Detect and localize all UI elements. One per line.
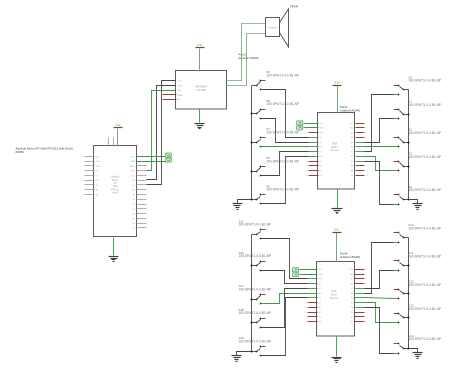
svg-text:GAIN: GAIN [178,94,184,97]
svg-text:SCL: SCL [319,269,323,271]
switch S1 [394,100,441,120]
svg-text:DIN: DIN [178,90,182,92]
svg-text:GND: GND [349,128,354,130]
switch S10 [394,223,441,243]
svg-text:100-SP4/T1-0-0-B1-NP: 100-SP4/T1-0-0-B1-NP [239,254,272,258]
wire bus to ground (bottom-right) [409,349,418,353]
svg-text:29: 29 [305,161,307,163]
ground (amp) [195,124,205,129]
wire Part3 GND [337,190,339,209]
amplifier U1 MAX98357 I2S amp [176,71,227,110]
svg-text:100-SP4/T1-0-0-B1-NP: 100-SP4/T1-0-0-B1-NP [239,339,272,343]
pin stub [308,312,318,314]
wire Part4 SCL [300,269,318,271]
ground (bottom-left column) [232,356,242,362]
svg-text:1: 1 [366,123,367,125]
wire Metro SCL [137,156,166,158]
svg-text:B4: B4 [319,302,321,304]
wire S5 to Part3 [261,157,309,204]
wire Part3 SDA [304,127,319,129]
svg-text:B2: B2 [320,147,322,149]
svg-text:B1: B1 [320,142,322,144]
svg-text:A6: A6 [351,316,353,319]
svg-text:A1: A1 [351,292,353,295]
svg-text:12: 12 [366,321,368,323]
wire Part4 SDA [300,274,318,276]
ground (Metro) [109,257,119,262]
ground (Part4) [332,358,342,363]
switch S5 [251,184,299,204]
ground (bottom-right column) [413,353,423,359]
svg-text:100-SP4/T1-0-0-B1-NP: 100-SP4/T1-0-0-B1-NP [408,155,441,159]
svg-text:10: 10 [366,166,368,168]
svg-text:3 3v: 3 3v [116,123,122,127]
wire speaker + [227,24,266,81]
switch S9 [251,156,299,176]
svg-text:B7: B7 [319,317,321,319]
pin stub [308,278,318,280]
svg-text:#4950: #4950 [16,150,25,154]
pin stub [309,165,319,167]
pin stub [355,316,365,318]
net label pair (Part3 I2C) [296,121,302,130]
svg-text:Adafruit Metro M7 With RT1011: Adafruit Metro M7 With RT1011 with AirLi… [16,146,73,150]
svg-text:100-SP4/T1-0-0-B1-NP: 100-SP4/T1-0-0-B1-NP [239,311,272,315]
pin stub [356,137,365,139]
pin stub [355,274,365,276]
svg-text:A0: A0 [351,141,353,144]
svg-text:AirLift: AirLift [112,192,118,195]
wire S14 to Part4 [365,308,394,354]
svg-text:B5: B5 [319,307,321,309]
pin stub [308,293,318,295]
svg-text:I2C exp: I2C exp [330,297,339,300]
pin stub [356,127,365,129]
svg-text:AREF: AREF [130,165,136,168]
svg-text:GND: GND [349,274,354,276]
svg-text:A4: A4 [351,306,353,309]
svg-text:Adafruit #5346: Adafruit #5346 [340,108,360,112]
svg-text:100-SP4/T1-0-0-B1-NP: 100-SP4/T1-0-0-B1-NP [408,255,441,259]
svg-text:11: 11 [366,317,368,319]
wire S7 to Part3 [261,146,309,148]
svg-text:23: 23 [305,132,307,134]
svg-text:1: 1 [366,269,367,271]
svg-text:100-SP4/T1-0-0-B1-NP: 100-SP4/T1-0-0-B1-NP [266,102,299,106]
bus wire (bottom-right switch column) [408,238,410,349]
pin stub [309,170,319,172]
wire Metro SDA [137,161,166,163]
bus wire (top-left switch column) [251,86,253,200]
pin stub [356,146,365,148]
svg-text:A5: A5 [351,311,353,314]
svg-text:B4: B4 [320,156,322,158]
svg-text:B7: B7 [320,170,322,172]
pin stub [356,123,365,125]
svg-text:B3: B3 [320,151,322,153]
svg-text:GND: GND [96,161,101,163]
pin stub [356,142,365,144]
svg-text:A2: A2 [351,150,353,153]
wire S16 to Part4 [261,271,308,284]
Metro right pins [130,156,147,229]
svg-text:MAX98357: MAX98357 [195,85,208,88]
svg-text:B0: B0 [319,283,321,285]
svg-text:3 3v: 3 3v [335,81,341,85]
svg-text:A5: A5 [351,165,353,168]
pin stub [355,297,365,299]
pin stub [309,142,319,144]
pin stub [309,175,319,177]
svg-text:GND: GND [131,171,136,173]
pin stub [309,156,319,158]
wire S9 to Part3 [261,152,309,176]
svg-text:3: 3 [366,132,367,134]
svg-text:3: 3 [366,279,367,281]
svg-text:32: 32 [305,175,307,177]
svg-text:5: 5 [112,149,113,151]
ground (Part3) [332,209,343,214]
speaker SPKR [266,4,299,47]
switch S4 [394,185,441,205]
svg-text:31: 31 [304,317,306,319]
svg-text:100-SP4/T1-0-0-B1-NP: 100-SP4/T1-0-0-B1-NP [266,130,299,134]
ground (top-left column) [233,204,243,210]
svg-text:A3: A3 [351,301,353,304]
pin stub [356,175,365,177]
wire S11 to Part4 [365,271,394,289]
svg-text:28: 28 [304,302,306,304]
power +3.3V (Part4) [333,228,342,233]
wire Part3 SCL [304,123,319,125]
svg-text:3 3v: 3 3v [197,43,203,47]
svg-text:SPKR: SPKR [290,4,299,8]
pin stub [308,307,318,309]
wire S10 to Part4 [365,243,394,294]
bus wire (bottom-left switch column) [251,235,253,352]
svg-text:A2: A2 [351,297,353,300]
Metro board label text [16,146,73,154]
pin stub [355,283,365,285]
svg-text:SDA: SDA [131,160,136,163]
wire S6 to Part3 [261,90,309,138]
net label pair (Part4 I2C) [292,268,298,277]
pin stub [356,151,365,153]
amp pin SD stub [163,99,177,101]
pin stub [308,297,318,299]
svg-text:A7: A7 [351,320,353,323]
svg-text:GND: GND [96,166,101,168]
svg-text:A4: A4 [351,160,353,163]
wire amp GND [199,110,201,123]
switch S12 [394,280,441,300]
net label pair (Metro I2C) [165,153,171,162]
I/O expander Part4 label [340,252,360,260]
svg-text:VIN: VIN [96,156,100,158]
svg-text:30: 30 [304,312,306,314]
switch S11 [394,251,441,271]
wire amp BCLK to Metro D9 [147,86,177,180]
wire S19 to Part4 [261,298,308,356]
svg-text:B5: B5 [320,161,322,163]
wire S4 to Part3 [365,162,394,205]
svg-text:u: u [107,149,108,151]
pin stub [355,288,365,290]
wire S0 to Part3 [365,95,394,152]
svg-text:A1: A1 [351,146,353,149]
svg-text:100-SP4/T1-0-0-B1-NP: 100-SP4/T1-0-0-B1-NP [408,307,441,311]
I/O expander Part3 label [340,105,360,113]
pin stub [308,283,318,285]
pin stub [355,302,365,304]
wire S18 to Part4 [261,289,308,328]
svg-text:B6: B6 [319,312,321,314]
pin stub [309,137,319,139]
wire Metro GND [113,238,115,256]
amp pin GAIN stub [163,94,177,96]
svg-text:2: 2 [366,274,367,276]
switch S19 [239,336,272,356]
wire amp 3.3V [199,49,201,72]
svg-text:SCL: SCL [320,123,324,125]
svg-text:A6: A6 [351,169,353,172]
svg-text:100-SP4/T1-0-0-B1-NP: 100-SP4/T1-0-0-B1-NP [408,103,441,107]
switch S3 [394,152,441,172]
pin stub [356,156,365,158]
wire S13 to Part4 [365,303,394,323]
svg-text:31: 31 [305,170,307,172]
pin stub [309,132,319,134]
switch S0 [394,75,441,95]
wire S3 to Part3 [365,157,394,171]
pin stub [356,170,365,172]
switch S15 [239,220,272,240]
svg-text:I2C exp: I2C exp [330,149,339,152]
Metro top pins [107,138,119,152]
svg-text:I2S AMP: I2S AMP [197,89,207,92]
pin stub [309,161,319,163]
wire bus to ground (top-left) [238,200,252,204]
switch S16 [239,251,272,272]
pin stub [309,127,319,129]
switch S8 [251,99,299,120]
wire Metro 3.3V [117,129,119,147]
pin stub [356,161,365,163]
svg-text:2: 2 [366,128,367,130]
svg-text:100-SP4/T1-0-0-B1-NP: 100-SP4/T1-0-0-B1-NP [239,287,272,291]
svg-text:100-SP4/T1-0-0-B1-NP: 100-SP4/T1-0-0-B1-NP [266,188,299,192]
svg-text:A3: A3 [351,155,353,158]
svg-text:4: 4 [366,137,367,139]
svg-text:100-SP4/T1-0-0-B1-NP: 100-SP4/T1-0-0-B1-NP [408,131,441,135]
svg-text:12: 12 [366,175,368,177]
wire amp DIN to Metro D12 [147,91,177,171]
pin stub [356,165,365,167]
svg-text:B1: B1 [319,288,321,290]
wire S2 to Part3 [365,146,394,148]
pin stub [355,307,365,309]
pin stub [309,151,319,153]
wire S15 to Part4 [261,239,308,279]
svg-text:3: 3 [117,149,118,151]
wire amp LRC to Metro D10 [147,81,177,185]
svg-text:4: 4 [366,283,367,285]
svg-text:3 3v: 3 3v [334,228,340,232]
switch S2 [394,128,441,148]
svg-text:B6: B6 [320,166,322,168]
svg-text:100-SP4/T1-0-0-B1-NP: 100-SP4/T1-0-0-B1-NP [239,223,272,227]
switch S17 [239,284,272,304]
switch S18 [239,308,272,328]
svg-text:29: 29 [304,307,306,309]
pin stub [356,132,365,134]
pin stub [355,269,365,271]
svg-text:10: 10 [366,312,368,314]
bus wire (top-right switch column) [408,90,410,200]
svg-text:100-SP4/T1-0-0-B1-NP: 100-SP4/T1-0-0-B1-NP [408,337,441,341]
wire S8 to Part3 [261,119,309,143]
wire Part3 3.3V [337,86,339,113]
svg-text:11: 11 [366,170,368,172]
I/O expander U3 Part4 MCP23017 [304,262,368,337]
switch S7 [251,127,299,147]
power +3.3V (Part3) [333,81,342,86]
wire speaker - [227,34,266,86]
svg-text:BCLK: BCLK [178,85,184,87]
pin stub [308,269,318,271]
svg-text:100-SP4/T1-0-0-B1-NP: 100-SP4/T1-0-0-B1-NP [266,73,299,77]
power +3.3V (amp) [196,43,205,47]
svg-text:100-SP4/T1-0-0-B1-NP: 100-SP4/T1-0-0-B1-NP [408,188,441,192]
svg-text:SPEAKER: SPEAKER [268,27,278,30]
svg-text:A7: A7 [351,174,353,177]
svg-text:100-SP4/T1-0-0-B1-NP: 100-SP4/T1-0-0-B1-NP [408,283,441,287]
switch S14 [394,334,441,354]
I/O expander U2 Part3 MCP23017 [305,113,368,190]
svg-text:100-SP4/T1-0-0-B1-NP: 100-SP4/T1-0-0-B1-NP [266,159,299,163]
wire bus to ground (bottom-left) [237,352,252,356]
svg-text:B0: B0 [320,137,322,139]
wire Part4 3.3V [336,233,338,262]
svg-text:Adafruit #5346: Adafruit #5346 [340,255,360,259]
svg-text:100-SP4/T1-0-0-B1-NP: 100-SP4/T1-0-0-B1-NP [408,226,441,230]
ground (top-right column) [413,204,423,210]
svg-text:B3: B3 [319,298,321,300]
svg-text:VCC: VCC [349,269,354,271]
pin stub [309,123,319,125]
svg-text:32: 32 [304,321,306,323]
svg-text:100-SP4/T1-0-0-B1-NP: 100-SP4/T1-0-0-B1-NP [408,79,441,83]
wire S17 to Part4 [261,294,308,304]
svg-text:VCC: VCC [350,123,355,125]
svg-text:A0: A0 [351,287,353,290]
wire bus to ground (top-right) [409,200,418,204]
wire Part4 GND [336,336,338,357]
amplifier U1 label [238,53,258,61]
wire S1 to Part3 [365,119,394,143]
svg-text:SD: SD [178,100,181,102]
svg-text:LRC: LRC [178,81,183,83]
pin stub [355,278,365,280]
wire S12 to Part4 [365,298,394,299]
svg-text:B2: B2 [319,293,321,295]
power +3.3V (Metro) [114,123,123,127]
pin stub [308,302,318,304]
switch S13 [394,304,441,324]
pin stub [355,321,365,323]
svg-text:30: 30 [305,166,307,168]
Metro left pins [85,156,101,196]
pin stub [308,321,318,323]
pin stub [308,288,318,290]
microcontroller board A1 Adafruit Metro M7 [94,146,137,237]
pin stub [308,274,318,276]
pin stub [309,146,319,148]
pin stub [355,312,365,314]
pin stub [308,316,318,318]
pin stub [355,293,365,295]
switch S6 [252,70,299,90]
